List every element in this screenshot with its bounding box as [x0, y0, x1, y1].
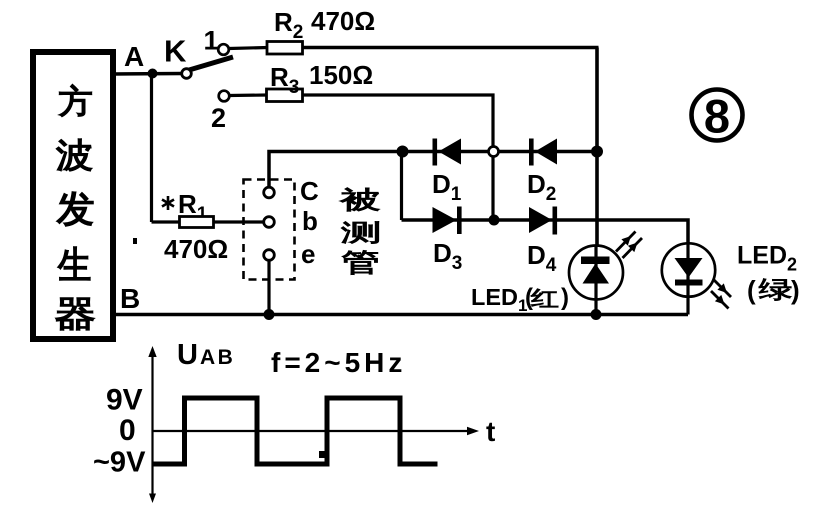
dashed box: device under test [244, 180, 295, 280]
diode D3 [433, 207, 462, 235]
wire A-vertical to R1 [152, 220, 181, 223]
svg-text:t: t [486, 416, 495, 447]
svg-text:K: K [164, 34, 187, 69]
svg-text:b: b [302, 206, 318, 236]
wire main vertical from R2 node down to LED1 [595, 48, 599, 248]
wire B bottom rail [113, 313, 688, 317]
svg-text:e: e [301, 239, 315, 269]
wire bridge row1 to row2 (left) [400, 152, 403, 221]
switch K pivot terminal [182, 69, 192, 79]
svg-text:150Ω: 150Ω [309, 60, 373, 90]
wire R3 to hollow node (right then down) [303, 95, 494, 220]
terminal b [264, 217, 275, 228]
hollow junction node [489, 147, 499, 157]
label *R1 [162, 189, 208, 225]
diode D4 [529, 207, 557, 235]
wire terminal 2 to R3 [230, 93, 268, 97]
svg-text:9V: 9V [106, 384, 143, 417]
svg-text:(: ( [525, 284, 533, 311]
diode D1 [433, 139, 462, 166]
wire terminal 1 to R2 [229, 48, 268, 49]
svg-text:0: 0 [119, 414, 136, 447]
switch K lever [184, 57, 233, 72]
svg-text:B: B [120, 283, 140, 314]
terminal e [264, 250, 275, 261]
junction dot LED1-B [591, 309, 602, 320]
resistor R1 [180, 217, 214, 228]
wire node A down to R1 [150, 74, 153, 223]
svg-text:LED1: LED1 [471, 284, 527, 315]
terminal C [264, 187, 275, 198]
junction dot row1 right [591, 146, 603, 158]
svg-text:2: 2 [211, 103, 226, 133]
label R2 470Ω [274, 6, 375, 43]
ink speck near R1 [133, 238, 137, 244]
ink speck near waveform [319, 451, 327, 458]
svg-text:D4: D4 [527, 240, 557, 276]
svg-text:470Ω: 470Ω [164, 234, 228, 264]
wire terminal e down to B rail [267, 260, 270, 315]
svg-text:470Ω: 470Ω [311, 6, 375, 36]
node A junction dot [148, 69, 158, 79]
label 方波发生器 [56, 85, 94, 330]
svg-text:): ) [561, 284, 569, 311]
svg-text:): ) [791, 275, 800, 305]
svg-text:D3: D3 [433, 238, 462, 274]
label LED2 (绿) [737, 242, 800, 306]
svg-text:LED2: LED2 [737, 242, 797, 275]
box: square-wave generator [33, 52, 113, 339]
svg-text:f=2~5Hz: f=2~5Hz [271, 347, 406, 378]
svg-text:8: 8 [704, 90, 730, 143]
resistor R2 [267, 42, 303, 55]
wire C terminal up and right to diode row 1 [269, 152, 598, 189]
junction dot row2 [489, 215, 500, 226]
waveform X axis t [153, 427, 480, 436]
wire generator to node A [113, 72, 183, 76]
label LED1 (红) [471, 284, 569, 315]
svg-text:R2: R2 [274, 7, 303, 43]
svg-text:1: 1 [204, 26, 219, 56]
resistor R3 [267, 89, 303, 102]
square wave trace [153, 398, 438, 464]
svg-text:C: C [300, 176, 319, 206]
figure number 8 (circled) [692, 90, 743, 143]
junction dot row1 left [397, 146, 409, 158]
wire R2 to right vertical [303, 46, 599, 50]
diode D2 [529, 139, 557, 166]
terminal 1 [218, 44, 229, 55]
svg-text:D2: D2 [527, 169, 556, 205]
wire R1 to terminal b [214, 220, 265, 223]
terminal 2 [219, 91, 230, 102]
waveform Y axis UAB [148, 346, 156, 503]
LED1 light arrows [616, 232, 642, 259]
label 被测管 [340, 188, 379, 275]
svg-text:~9V: ~9V [93, 447, 146, 479]
svg-text:UAB: UAB [177, 339, 235, 371]
label R3 150Ω [270, 60, 373, 98]
svg-text:D1: D1 [432, 169, 462, 205]
wire diode row 2 to LED2 [402, 220, 689, 246]
svg-text:A: A [124, 41, 144, 72]
LED2 (green) [662, 243, 715, 314]
LED2 light arrows [711, 280, 731, 309]
svg-text:(: ( [747, 275, 756, 305]
junction dot e-B [264, 309, 275, 320]
LED1 (red) [569, 246, 623, 315]
